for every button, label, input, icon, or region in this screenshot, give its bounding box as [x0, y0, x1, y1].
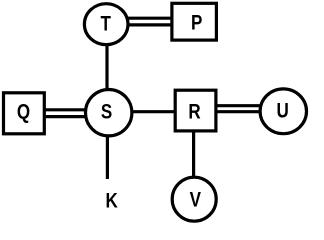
- node P (square): [172, 3, 217, 40]
- wire T-S vertical: [105, 24, 108, 113]
- node U (circle): [260, 89, 306, 134]
- wire R=U double bond upper: [196, 104, 283, 107]
- node Q (square): [4, 93, 45, 134]
- node R (square): [175, 90, 216, 131]
- svg-text:Q: Q: [17, 101, 30, 124]
- svg-text:V: V: [190, 189, 201, 212]
- svg-text:T: T: [100, 13, 111, 36]
- wire R=U double bond lower: [196, 110, 283, 113]
- wire T=P double bond lower: [106, 23, 196, 26]
- svg-text:S: S: [101, 101, 112, 124]
- wire S-R single: [109, 110, 196, 113]
- node S (circle): [86, 90, 132, 136]
- wire Q=S double bond lower: [24, 115, 109, 118]
- wire S-K vertical: [106, 113, 109, 179]
- wire T=P double bond upper: [106, 17, 196, 20]
- svg-text:U: U: [277, 100, 289, 123]
- svg-text:K: K: [105, 190, 117, 213]
- wire Q=S double bond upper: [24, 108, 109, 111]
- node V (circle): [172, 177, 216, 221]
- wire R-V vertical: [192, 111, 195, 199]
- svg-text:R: R: [188, 101, 200, 124]
- node T (circle): [84, 4, 128, 45]
- svg-text:P: P: [191, 12, 202, 35]
